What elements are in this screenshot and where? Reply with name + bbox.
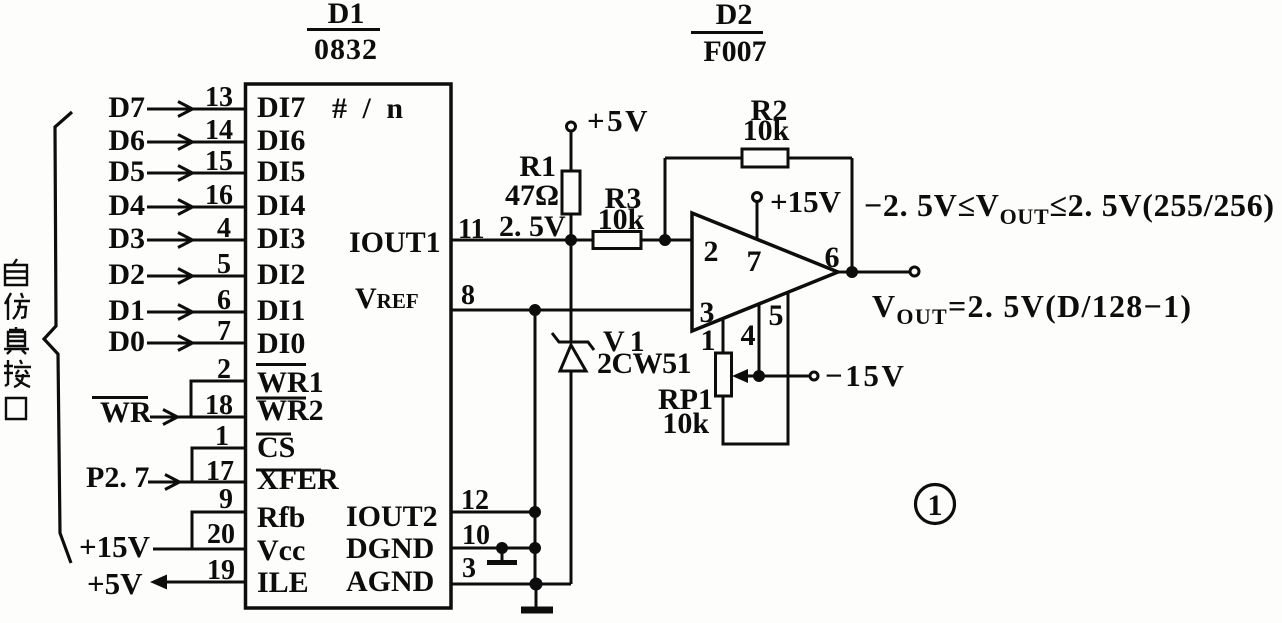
- junction dot VREF/ground branch: [531, 306, 540, 315]
- wire +5V to R1: [570, 131, 573, 171]
- wire op-amp output: [838, 271, 910, 274]
- svg-text:11: 11: [458, 214, 484, 245]
- node CS tie: staple joining pin 1 and pin 17: [192, 448, 244, 482]
- svg-text:5: 5: [769, 299, 784, 332]
- svg-text:9: 9: [219, 484, 233, 515]
- overline of CS: [256, 433, 291, 436]
- svg-text:19: 19: [207, 555, 235, 586]
- wire IOUT1 pin 11 node to op-amp input: [451, 239, 692, 242]
- formula output range: [864, 187, 1275, 329]
- wire ground branch vertical: [534, 310, 537, 584]
- label R3 10k: [598, 182, 645, 236]
- svg-text:1: 1: [928, 489, 943, 522]
- svg-text:# / n: # / n: [332, 92, 407, 125]
- wire pin 4 V- down to -15V rail: [758, 304, 761, 376]
- resistor R3 body: [593, 232, 641, 249]
- svg-text:20: 20: [207, 519, 235, 550]
- svg-text:D2: D2: [108, 258, 145, 291]
- char 口: [6, 398, 26, 419]
- terminal VOUT: [910, 267, 919, 276]
- wire pin 7 to +15V terminal: [756, 201, 759, 240]
- svg-text:7: 7: [747, 245, 762, 278]
- svg-text:ILE: ILE: [257, 566, 309, 599]
- char 真: [4, 327, 29, 354]
- wire feedback down to output: [851, 158, 854, 272]
- svg-text:DGND: DGND: [346, 532, 434, 565]
- junction dot AGND/ground: [531, 579, 541, 589]
- wire +5V supply to pin 19 ILE: [156, 581, 244, 584]
- terminal -15V: [810, 372, 818, 380]
- label R1 47ohm: [505, 150, 559, 212]
- wire D5 to pin 15: [147, 172, 244, 175]
- svg-text:WR: WR: [100, 396, 152, 429]
- op-amp D2 title label D2/F007: [703, 0, 766, 68]
- svg-text:2: 2: [217, 354, 231, 385]
- svg-text:D7: D7: [108, 91, 145, 124]
- svg-text:2CW51: 2CW51: [597, 347, 691, 380]
- svg-text:DI7: DI7: [257, 91, 305, 124]
- wire RP1 bottom loop to pin 5: [723, 292, 788, 444]
- node Rfb tie: staple joining pin 9 and pin 20: [192, 512, 244, 549]
- svg-text:16: 16: [205, 180, 233, 211]
- svg-text:47Ω: 47Ω: [505, 179, 559, 212]
- wire D2 to pin 5: [147, 275, 244, 278]
- zener V1 anode triangle: [560, 345, 586, 371]
- wire VREF pin 8 to op-amp noninverting input: [451, 309, 692, 312]
- brace of interface group: [44, 112, 72, 563]
- svg-text:D2: D2: [716, 0, 753, 31]
- svg-text:3: 3: [462, 553, 476, 584]
- svg-text:10: 10: [462, 520, 490, 551]
- terminal +15V: [753, 193, 762, 202]
- arrow head at +5V label: [150, 575, 167, 590]
- svg-text:DI5: DI5: [257, 155, 305, 188]
- svg-text:D1: D1: [108, 294, 145, 327]
- svg-text:5: 5: [217, 249, 231, 280]
- svg-text:4: 4: [741, 319, 756, 352]
- resistor R1 body: [562, 171, 580, 214]
- junction dot R1/IOUT1: [567, 236, 576, 245]
- svg-text:XFER: XFER: [257, 463, 339, 496]
- junction dot DGND ground stub: [498, 544, 507, 553]
- wire pin 1 offset null to RP1: [722, 318, 725, 353]
- junction dot pin10/branch: [531, 544, 540, 553]
- ground symbol main: [535, 584, 538, 608]
- label V1 2CW51: [597, 325, 691, 380]
- wire WR input to pin 18: [150, 416, 244, 419]
- DAC IC U-D1 0832 body rectangle: [246, 84, 452, 608]
- junction dot pin12/branch: [531, 508, 540, 517]
- wire +15V supply to pin 20: [153, 548, 244, 551]
- fraction line of D2 title: [691, 31, 763, 34]
- svg-text:0832: 0832: [314, 33, 378, 66]
- zener V1 line from 2.5V node down: [570, 240, 573, 342]
- svg-text:+15V: +15V: [79, 529, 151, 564]
- svg-text:1: 1: [701, 324, 716, 357]
- svg-text:6: 6: [825, 241, 840, 274]
- potentiometer RP1 body: [716, 353, 732, 396]
- svg-text:D4: D4: [108, 189, 145, 222]
- svg-text:10k: 10k: [743, 114, 790, 147]
- svg-text:+5V: +5V: [87, 566, 143, 601]
- svg-text:DI6: DI6: [257, 124, 305, 157]
- svg-text:12: 12: [461, 485, 489, 516]
- svg-text:4: 4: [217, 213, 231, 244]
- svg-text:CS: CS: [257, 431, 295, 464]
- wire -15V rail: [744, 375, 810, 378]
- arrow on P2.7 wire: [165, 475, 180, 490]
- wire IOUT2 pin 12: [451, 511, 535, 514]
- node WR tie: staple joining pin 2 and pin 18: [191, 381, 244, 417]
- svg-text:D3: D3: [108, 222, 145, 255]
- svg-text:14: 14: [205, 115, 233, 146]
- char 自: [5, 259, 27, 285]
- op-amp U-D2 F007 triangle: [692, 213, 838, 331]
- svg-text:DI2: DI2: [257, 258, 305, 291]
- svg-text:7: 7: [217, 316, 231, 347]
- overline of WR1: [256, 363, 306, 366]
- junction dot R3 output node: [661, 236, 670, 245]
- wire D6 to pin 14: [147, 141, 244, 144]
- wire D4 to pin 16: [147, 206, 244, 209]
- overline of WR2: [256, 397, 306, 400]
- wire D1 to pin 6: [147, 311, 244, 314]
- svg-text:15: 15: [205, 146, 233, 177]
- wiper arrow into RP1: [732, 369, 748, 383]
- vertical caption 自仿真接口 drawn as strokes: [4, 259, 31, 419]
- svg-text:+5V: +5V: [587, 103, 650, 138]
- ground symbol at DGND: [501, 548, 504, 561]
- svg-text:Rfb: Rfb: [257, 501, 305, 534]
- IC D1 title label D1/0832: [314, 0, 378, 66]
- arrow on WR wire: [163, 410, 178, 425]
- svg-text:D5: D5: [108, 155, 145, 188]
- svg-text:17: 17: [206, 456, 234, 487]
- svg-text:D6: D6: [108, 124, 145, 157]
- svg-text:18: 18: [205, 390, 233, 421]
- svg-text:D1: D1: [328, 0, 365, 30]
- svg-text:DI3: DI3: [257, 222, 305, 255]
- zener V1 cathode bar with hooks: [552, 333, 594, 350]
- label RP1 10k: [658, 383, 713, 440]
- svg-text:−15V: −15V: [825, 358, 906, 393]
- wire R1 to node: [570, 214, 573, 240]
- resistor R2 body: [742, 149, 788, 167]
- wire zener anode down to AGND rail: [570, 371, 573, 584]
- svg-text:8: 8: [461, 280, 475, 311]
- wire D7 to pin 13: [147, 108, 244, 111]
- wire P2.7 input to pin 17: [148, 481, 244, 484]
- wire feedback top run: [665, 157, 852, 160]
- svg-text:DI0: DI0: [257, 327, 305, 360]
- svg-text:F007: F007: [703, 35, 766, 68]
- svg-text:D0: D0: [108, 325, 145, 358]
- wire D3 to pin 4: [147, 239, 244, 242]
- svg-text:IOUT1: IOUT1: [349, 226, 441, 259]
- svg-text:6: 6: [217, 285, 231, 316]
- svg-text:−2. 5V≤VOUT≤2. 5V(255/256): −2. 5V≤VOUT≤2. 5V(255/256): [864, 187, 1275, 229]
- svg-text:DI1: DI1: [257, 294, 305, 327]
- svg-text:10k: 10k: [662, 407, 709, 440]
- svg-text:VREF: VREF: [355, 282, 419, 315]
- svg-text:Vcc: Vcc: [257, 534, 305, 567]
- figure number circle 1: [916, 485, 955, 524]
- wire D0 to pin 7: [147, 342, 244, 345]
- svg-text:IOUT2: IOUT2: [346, 500, 438, 533]
- svg-text:10k: 10k: [598, 203, 645, 236]
- wire AGND pin 3 to zener: [451, 583, 571, 586]
- junction dot output/feedback: [848, 268, 857, 277]
- svg-text:P2. 7: P2. 7: [86, 461, 149, 494]
- svg-text:13: 13: [205, 82, 233, 113]
- wire DGND pin 10: [451, 547, 535, 550]
- svg-text:2. 5V: 2. 5V: [499, 210, 566, 243]
- fraction line of D1 title: [307, 28, 380, 31]
- label R2 10k: [743, 94, 790, 147]
- svg-text:2: 2: [704, 235, 719, 268]
- svg-text:+15V: +15V: [770, 184, 842, 219]
- svg-text:1: 1: [215, 421, 229, 452]
- svg-text:DI4: DI4: [257, 189, 305, 222]
- char 接: [4, 360, 31, 387]
- char 仿: [5, 293, 30, 320]
- overline of XFER: [256, 469, 321, 472]
- svg-text:VOUT=2. 5V(D/128−1): VOUT=2. 5V(D/128−1): [872, 288, 1192, 329]
- wire feedback node up: [664, 158, 667, 240]
- junction dot pin4/-15V: [755, 372, 764, 381]
- terminal +5V: [567, 122, 576, 131]
- svg-text:AGND: AGND: [346, 565, 434, 598]
